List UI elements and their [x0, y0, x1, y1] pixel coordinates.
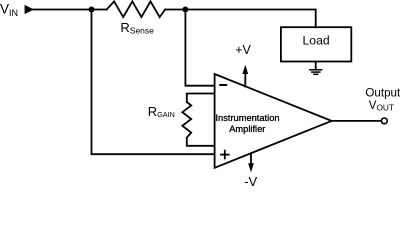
wire load to ground — [315, 62, 317, 70]
wire junction B down to minus input — [185, 10, 213, 86]
output terminal — [381, 118, 387, 124]
wire resistor to load corner — [165, 10, 316, 28]
resistor R_GAIN loop — [182, 94, 213, 146]
label R_Sense — [120, 20, 154, 36]
svg-text:Load: Load — [303, 33, 330, 47]
junction A — [89, 7, 95, 13]
minus input symbol — [220, 84, 226, 86]
label R_GAIN — [148, 104, 175, 119]
wire input to resistor — [33, 9, 107, 11]
node VIN label — [0, 2, 18, 18]
ground — [310, 70, 322, 75]
svg-text:Instrumentation: Instrumentation — [215, 113, 279, 123]
svg-text:Amplifier: Amplifier — [229, 124, 265, 134]
op-amp U1 instrumentation amplifier body — [215, 74, 332, 168]
wire junction A down to plus input — [92, 10, 214, 155]
-V supply arrow — [250, 153, 252, 164]
load box — [281, 27, 351, 61]
svg-text:Output: Output — [365, 86, 400, 99]
label -V — [244, 174, 257, 189]
output wire — [332, 120, 382, 122]
+V supply arrow — [244, 72, 246, 87]
label Instrumentation Amplifier — [215, 113, 279, 134]
input arrow — [25, 5, 34, 14]
label Output — [365, 86, 400, 112]
junction B — [182, 7, 188, 13]
svg-text:+V: +V — [235, 43, 251, 57]
label Load — [303, 33, 330, 47]
svg-text:-V: -V — [244, 174, 257, 189]
svg-text:VOUT: VOUT — [369, 100, 394, 113]
resistor R_Sense — [107, 1, 166, 17]
label +V — [235, 43, 251, 57]
plus input symbol — [221, 151, 229, 159]
